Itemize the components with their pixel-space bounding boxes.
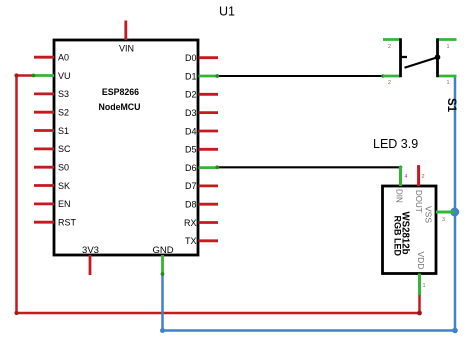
wire GND to switch (blue wire) [160,76,458,333]
switch S1 pin 1 top-right stub [438,38,457,41]
switch S1 left contact bar [399,38,402,77]
svg-text:D0: D0 [185,53,197,63]
wire D6 to DIN (black) [215,165,402,169]
svg-text:2: 2 [388,44,391,50]
svg-text:4: 4 [405,174,408,180]
svg-text:RST: RST [58,218,77,228]
switch S1 right contact bar [436,38,439,77]
svg-text:1: 1 [423,283,426,289]
pin RST [34,218,77,228]
pin GND (bottom) [152,245,173,275]
svg-text:S3: S3 [58,89,69,99]
svg-text:RGB LED: RGB LED [393,216,403,257]
svg-text:2: 2 [388,80,391,86]
pin SK [34,181,70,191]
pin D5 [185,145,218,155]
pin D4 [185,126,218,136]
svg-text:3V3: 3V3 [82,245,99,256]
pin D8 [185,200,218,210]
pin D7 [185,181,218,191]
svg-text:S2: S2 [58,108,69,118]
svg-text:D8: D8 [185,200,197,210]
svg-text:NodeMCU: NodeMCU [98,102,140,112]
svg-text:U1: U1 [219,5,235,19]
pin S0 [34,163,69,173]
pin TX [185,236,218,246]
svg-text:2: 2 [422,174,425,180]
svg-text:D4: D4 [185,126,197,136]
pin D6 [185,163,218,173]
pin RX [184,218,218,228]
pin D1 [185,71,218,81]
pin A0 [34,53,69,63]
svg-text:3: 3 [442,217,445,223]
svg-text:1: 1 [446,80,449,86]
svg-text:D7: D7 [185,181,197,191]
pin S2 [34,108,69,118]
switch S1 pole tick [401,56,408,58]
svg-text:D1: D1 [185,71,197,81]
svg-text:VDD: VDD [416,252,426,270]
svg-text:1: 1 [446,44,449,50]
pin D0 [185,53,218,63]
svg-text:VIN: VIN [119,44,134,54]
svg-text:GND: GND [152,245,173,256]
svg-text:LED 3.9: LED 3.9 [373,137,418,151]
LED pin 3 VSS [424,206,455,223]
svg-text:SC: SC [58,144,71,154]
svg-text:DOUT: DOUT [414,190,423,213]
node VSS junction on blue wire [450,208,459,217]
svg-text:D2: D2 [185,90,197,100]
svg-text:DIN: DIN [395,189,404,203]
wire D1 to switch (black) [215,74,384,78]
svg-text:D5: D5 [185,145,197,155]
svg-text:SK: SK [58,181,70,191]
pin VIN (top) [119,21,134,54]
svg-text:A0: A0 [58,53,69,63]
pin 3V3 (bottom) [82,245,99,275]
pin EN [34,199,71,209]
svg-text:EN: EN [58,199,71,209]
pin D2 [185,90,218,100]
LED pin 1 VDD [416,252,426,296]
svg-text:VSS: VSS [424,206,434,223]
svg-text:D6: D6 [185,163,197,173]
switch S1 actuator lever [405,57,438,68]
svg-text:RX: RX [184,218,197,228]
pin S3 [34,89,69,99]
pin SC [34,144,71,154]
svg-text:ESP8266: ESP8266 [102,87,139,97]
pin VU [33,71,71,81]
wire VU to VDD (red power wire) [14,73,422,315]
svg-text:S1: S1 [58,126,69,136]
svg-text:S0: S0 [58,163,69,173]
switch S1 pin 2 bottom-left stub [383,75,401,78]
svg-text:VU: VU [58,71,71,81]
IC U1 ESP8266 NodeMCU body [54,40,198,255]
LED pin 2 DOUT [414,165,425,213]
svg-text:S1: S1 [445,98,457,113]
switch S1 pin 2 top-left stub [383,38,401,41]
switch S1 pin 1 bottom-right stub [438,75,457,78]
LED 3.9 WS2812b body [383,186,437,274]
svg-text:D3: D3 [185,108,197,118]
svg-text:TX: TX [185,236,197,246]
switch S1 pushbutton [383,38,457,86]
pin D3 [185,108,218,118]
pin S1 [34,126,69,136]
LED pin 4 DIN [395,167,408,204]
